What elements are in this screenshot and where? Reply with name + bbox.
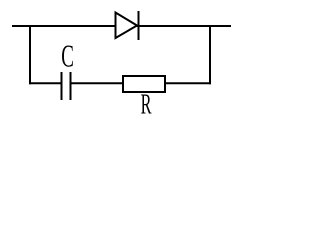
wire: left branch vertical	[29, 25, 31, 84]
diode D1 cathode bar	[138, 11, 140, 40]
svg-text:C: C	[61, 39, 74, 74]
wire: resistor to right branch	[165, 82, 211, 84]
wire: bottom-left horizontal to capacitor	[29, 82, 61, 84]
diode D1 (triangle anode, white interior)	[116, 13, 138, 39]
capacitor C right plate	[70, 72, 72, 100]
wire: top horizontal lead	[12, 25, 231, 27]
wire: right branch vertical	[209, 26, 211, 84]
wire: capacitor to resistor	[71, 82, 124, 84]
resistor R body (box)	[123, 76, 165, 92]
capacitor C left plate	[61, 72, 63, 100]
svg-text:R: R	[141, 89, 152, 121]
